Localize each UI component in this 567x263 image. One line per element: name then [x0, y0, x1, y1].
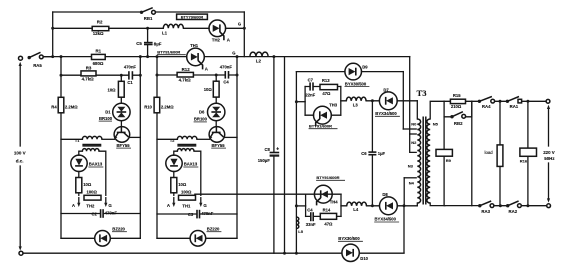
wire BFY55-2 emitter to T2: [197, 138, 210, 140]
svg-text:RA4: RA4: [482, 104, 491, 109]
wire top rail: [53, 11, 245, 13]
wire outer box right edge: [409, 57, 411, 134]
wire BAX13-2 to 10ohm-b2: [173, 172, 175, 178]
junction inner tap top: [295, 100, 298, 103]
terminal output bottom: [547, 204, 551, 208]
svg-text:C8: C8: [265, 147, 271, 152]
svg-text:C4: C4: [223, 80, 229, 85]
svg-text:470nF: 470nF: [201, 211, 214, 216]
terminal input bottom: [19, 251, 23, 255]
svg-text:C6: C6: [361, 151, 367, 156]
transformer T1 secondary coil: [82, 149, 99, 152]
svg-text:RB2: RB2: [454, 121, 463, 126]
resistor 10ohm-b stage1 body: [76, 178, 82, 193]
wire R15 line: [444, 100, 472, 102]
junction inner rail bottom: [295, 252, 298, 255]
svg-text:TH2: TH2: [212, 38, 221, 43]
svg-text:BYX34/500: BYX34/500: [375, 217, 397, 222]
svg-text:2.2MΩ: 2.2MΩ: [65, 104, 78, 109]
svg-text:D1: D1: [105, 110, 111, 115]
wire D7 corner to primary top: [416, 101, 418, 119]
wire tap N3/N4: [404, 177, 416, 179]
capacitor C1 plates: [128, 71, 130, 79]
svg-text:N0: N0: [411, 122, 417, 127]
wire BFY55 emitter to T1: [102, 138, 115, 140]
svg-text:R1: R1: [96, 48, 102, 53]
wire L3 line: [341, 100, 418, 102]
wire C3 branch: [157, 213, 237, 215]
resistor 100ohm stage1 body: [84, 195, 101, 200]
wire secondary top out: [430, 101, 444, 119]
part label BTY79/600R boxed: [177, 14, 208, 19]
diode D10: [342, 244, 359, 261]
thyristor TH3: [314, 106, 332, 124]
svg-text:d.c.: d.c.: [16, 159, 24, 164]
capacitor C4 plates output: [310, 212, 312, 221]
svg-text:R4: R4: [51, 105, 57, 110]
capacitor C8 plates: [270, 152, 280, 154]
svg-text:680Ω: 680Ω: [93, 61, 104, 66]
wire BFY55-2 collector to rail: [225, 136, 237, 138]
resistor R1 body: [92, 54, 106, 59]
supply arrow up: [19, 65, 21, 146]
wire TH4 loop left vertical: [305, 194, 307, 216]
wire R9 rail: [443, 101, 445, 205]
junction C4 right: [236, 74, 239, 77]
svg-text:BYX34/500: BYX34/500: [375, 111, 397, 116]
wire inner rail tap to TH4 loop: [296, 205, 305, 207]
svg-text:8µF: 8µF: [154, 41, 162, 46]
wire main supply line (100V bus): [43, 56, 410, 58]
svg-text:BTY91/600R: BTY91/600R: [309, 123, 332, 128]
svg-text:BAX13: BAX13: [89, 162, 103, 167]
svg-text:BZ220: BZ220: [112, 226, 125, 231]
svg-text:T2: T2: [170, 139, 174, 143]
wire left drop from top rail to main line: [52, 12, 54, 57]
svg-text:RA2: RA2: [509, 209, 518, 214]
svg-text:G: G: [232, 51, 235, 56]
svg-text:G: G: [238, 21, 241, 26]
svg-text:load: load: [485, 150, 494, 155]
svg-text:12kΩ: 12kΩ: [93, 31, 104, 36]
zener BZ220 stage1: [95, 231, 111, 247]
junction stage1 right rail top: [139, 55, 142, 58]
resistor R16 body: [520, 148, 537, 156]
resistor 100ohm stage2 body: [179, 195, 196, 200]
wire TH3 loop right vertical: [340, 87, 342, 116]
junction D8/D10 riser: [403, 204, 406, 207]
wire BZ220 branch stage1: [61, 237, 140, 239]
svg-text:C2: C2: [92, 211, 98, 216]
junction 10ohm top: [120, 74, 123, 77]
svg-text:BTY79/600R: BTY79/600R: [181, 14, 204, 19]
junction L4/C6: [371, 204, 374, 207]
wire corner drop x=244.3: [243, 12, 245, 57]
wire N4 drop: [403, 178, 405, 206]
diode D9: [345, 63, 362, 80]
resistor R13 body: [320, 84, 338, 89]
svg-text:N3: N3: [408, 163, 414, 168]
diac D1 BR100: [113, 103, 130, 120]
wire stage2 right rail: [236, 57, 238, 239]
svg-text:220 V: 220 V: [543, 150, 555, 155]
transistor BFY55 stage1: [114, 127, 130, 143]
transformer T3 core: [422, 117, 424, 205]
wire T2 primary to rail: [157, 138, 177, 140]
wire primary bottom corner: [416, 203, 418, 206]
svg-text:L3: L3: [353, 103, 359, 108]
wire BZ220 branch stage2: [157, 237, 237, 239]
wire bottom rail: [23, 252, 404, 254]
wire C7/R13 branch: [305, 86, 341, 88]
transformer T1 primary coil: [82, 136, 102, 139]
transformer T1 core: [82, 144, 101, 146]
resistor R10 body: [154, 97, 160, 113]
svg-text:BZ220: BZ220: [207, 226, 220, 231]
svg-text:BAX13: BAX13: [184, 162, 198, 167]
switch RA3: [478, 204, 481, 207]
wire TH3 row: [305, 114, 341, 116]
transformer T2 core: [177, 144, 196, 146]
svg-text:T3: T3: [417, 88, 427, 98]
junction L2/C8: [272, 55, 275, 58]
resistor load body: [497, 145, 503, 167]
wire R3/C1 line: [61, 74, 140, 76]
wire C6 vertical: [371, 101, 373, 206]
svg-text:BFY55: BFY55: [117, 143, 131, 148]
junction R16 rail bottom: [526, 204, 529, 207]
wire BFY55 collector to rail: [130, 136, 141, 138]
svg-text:1µF: 1µF: [378, 151, 386, 156]
resistor R4 body: [58, 97, 64, 113]
svg-text:N2: N2: [411, 140, 417, 145]
diode D7: [379, 92, 397, 110]
wire BAX13 to 10ohm: [78, 172, 80, 178]
junction load rail bottom: [499, 204, 502, 207]
junction C1 right: [139, 74, 142, 77]
junction top-of-C5: [146, 27, 149, 30]
wire top output line: [472, 100, 546, 102]
svg-text:470nF: 470nF: [105, 210, 118, 215]
svg-text:470nF: 470nF: [124, 64, 137, 69]
inductor L1: [163, 24, 183, 28]
resistor R9 body: [436, 149, 452, 156]
svg-text:100Ω: 100Ω: [181, 190, 192, 195]
wire N2 bracket: [410, 134, 417, 152]
capacitor C2 plates: [100, 209, 102, 218]
inductor L2: [250, 52, 268, 57]
svg-text:TH4: TH4: [330, 199, 339, 204]
wire inner ring top (D9 line): [296, 71, 403, 73]
wire C2 branch: [61, 213, 140, 215]
junction outer box bottom: [283, 252, 286, 255]
svg-text:N5: N5: [433, 122, 439, 127]
wire D9 drop to tap1: [402, 72, 404, 129]
junction main/R2 split: [51, 27, 54, 30]
wire R2/TH2 branch line: [53, 27, 245, 29]
svg-text:R10: R10: [144, 105, 152, 110]
wire T1 primary to rail: [61, 138, 82, 140]
resistor 10ohm-b stage2 body: [171, 178, 177, 193]
wire L4 line: [341, 205, 417, 207]
switch RA1: [506, 100, 509, 103]
junction TH2 line to drop: [243, 27, 246, 30]
wire R12/C4 line: [157, 74, 237, 76]
svg-text:R13: R13: [322, 78, 330, 83]
wire T2 sec left to BAX13-2: [174, 151, 178, 155]
resistor R2 body: [92, 26, 109, 30]
transistor BFY55 stage2: [209, 127, 225, 143]
wire 10ohm-b2 to junction: [173, 193, 175, 196]
wire T2 sec right to G line: [194, 151, 201, 195]
wire D1 to BFY55: [120, 121, 122, 127]
junction 10ohm2 top: [215, 74, 218, 77]
svg-text:100 V: 100 V: [14, 151, 26, 156]
wire inner rail: [295, 72, 297, 254]
thyristor TH4: [314, 185, 332, 203]
wire tap N2 top from box edge: [410, 133, 417, 135]
capacitor C3 plates: [196, 210, 198, 219]
junction L3/C6: [371, 99, 374, 102]
svg-text:33nF: 33nF: [306, 222, 316, 227]
wire C8 vertical: [273, 57, 275, 254]
wire C4/R14 branch: [306, 215, 341, 217]
terminal input top: [19, 56, 23, 60]
svg-text:TH1: TH1: [182, 203, 191, 208]
svg-text:10Ω: 10Ω: [108, 88, 117, 93]
zener BZ220 stage2: [190, 231, 206, 247]
wire 10ohm2 to D6: [215, 75, 217, 103]
svg-text:22nF: 22nF: [305, 93, 315, 98]
junction stage1 left rail top: [60, 55, 63, 58]
terminal arrow A stage2: [173, 198, 175, 204]
transformer T3 secondary winding: [427, 119, 430, 203]
wire inner rail tap to TH3 loop: [296, 101, 305, 103]
svg-text:BTY91/600R: BTY91/600R: [157, 49, 180, 54]
junction inner tap bottom: [295, 204, 298, 207]
resistor R15 body: [450, 99, 465, 103]
svg-text:G: G: [203, 203, 207, 208]
switch RA2: [506, 204, 509, 207]
svg-text:C1: C1: [127, 80, 133, 85]
svg-text:10Ω: 10Ω: [83, 182, 92, 187]
svg-text:BR100: BR100: [194, 117, 208, 122]
output volt arrow up: [548, 108, 550, 146]
svg-text:BTY91/600R: BTY91/600R: [316, 175, 339, 180]
svg-text:BYX30/500: BYX30/500: [338, 236, 360, 241]
wire RA5 to junction: [43, 56, 53, 58]
wire outer box left edge: [284, 57, 286, 254]
resistor R14 body: [320, 213, 336, 219]
svg-text:L1: L1: [162, 31, 168, 36]
terminal arrow G stage1: [105, 198, 107, 204]
switch RB2: [450, 115, 453, 118]
capacitor C7 plates: [309, 82, 311, 90]
terminal arrow A stage1: [78, 198, 80, 204]
junction R16 rail top: [526, 100, 529, 103]
wire stage2 left rail: [156, 57, 158, 239]
svg-text:BYX30/500: BYX30/500: [345, 81, 367, 86]
transformer T3 primary winding: [417, 119, 420, 203]
svg-text:D7: D7: [383, 87, 389, 92]
svg-text:47Ω: 47Ω: [322, 91, 331, 96]
junction stage2 left rail top: [156, 55, 159, 58]
junction R3 left: [60, 74, 63, 77]
switch RA5: [28, 56, 31, 59]
thyristor TH2: [209, 20, 226, 37]
resistor R3 body: [81, 71, 96, 76]
svg-text:R14: R14: [323, 208, 331, 213]
wire stage1 right rail: [139, 57, 141, 239]
svg-text:L2: L2: [256, 58, 262, 63]
wire stage1 left rail: [60, 57, 62, 239]
svg-text:10Ω: 10Ω: [204, 87, 213, 92]
terminal output top: [546, 99, 550, 103]
svg-text:10Ω: 10Ω: [178, 182, 187, 187]
inductor L3: [346, 97, 366, 101]
svg-text:4.7kΩ: 4.7kΩ: [179, 78, 192, 83]
switch RA4: [478, 100, 481, 103]
svg-text:D9: D9: [362, 64, 368, 69]
terminal arrow G stage2: [200, 198, 202, 204]
wire TH3 loop left vertical: [304, 87, 306, 116]
capacitor C4 stage2 plates: [224, 71, 226, 79]
transformer T2 secondary coil: [177, 149, 194, 152]
svg-text:210Ω: 210Ω: [451, 104, 462, 109]
svg-text:D6: D6: [199, 110, 205, 115]
svg-text:TH3: TH3: [329, 103, 338, 108]
transformer T2 primary coil: [177, 136, 197, 139]
svg-text:G: G: [108, 203, 112, 208]
wire 10ohm to D1: [120, 75, 122, 103]
svg-text:BR100: BR100: [99, 116, 113, 121]
svg-text:D10: D10: [360, 256, 368, 261]
diode BAX13 stage1: [71, 155, 87, 171]
wire T1 sec right to G line: [99, 151, 106, 195]
svg-text:L4: L4: [353, 207, 359, 212]
wire capacitor C5 vertical: [147, 28, 149, 56]
svg-text:R2: R2: [97, 20, 103, 25]
svg-text:C5: C5: [136, 41, 142, 46]
svg-text:C4: C4: [307, 207, 313, 212]
capacitor C5 plates: [144, 42, 153, 44]
junction stage2 right rail top: [236, 55, 239, 58]
svg-text:100Ω: 100Ω: [87, 190, 98, 195]
svg-text:D8: D8: [382, 192, 388, 197]
thyristor TH1: [187, 48, 205, 66]
wire T1 sec left to BAX13: [79, 151, 83, 155]
svg-text:RA1: RA1: [510, 104, 519, 109]
svg-text:+: +: [276, 146, 279, 152]
wire RB2 branch: [444, 101, 472, 117]
svg-text:150µF: 150µF: [258, 158, 270, 163]
svg-text:470nF: 470nF: [220, 64, 233, 69]
resistor 10ohm stage1 body: [118, 81, 124, 97]
diac D6 BR100: [208, 103, 225, 120]
junction C5 bottom: [146, 55, 149, 58]
wire R16 rail: [527, 101, 529, 205]
inductor L5: [296, 217, 298, 228]
wire TH4 row: [194, 193, 341, 195]
switch RB1: [140, 11, 143, 14]
wire tap N0/N2 from D9 line: [403, 128, 416, 130]
wire D6 to BFY55-2: [215, 121, 217, 127]
svg-text:50Hz: 50Hz: [544, 156, 555, 161]
svg-text:R15: R15: [453, 93, 461, 98]
svg-text:L5: L5: [298, 229, 303, 234]
svg-text:R3: R3: [86, 66, 92, 71]
svg-text:2.2MΩ: 2.2MΩ: [161, 104, 174, 109]
output volt arrow down: [548, 163, 550, 199]
svg-text:R12: R12: [182, 67, 191, 72]
svg-text:R9: R9: [446, 158, 452, 163]
svg-text:N4: N4: [409, 181, 415, 186]
capacitor C6 plates: [368, 151, 376, 153]
wire load rail: [499, 101, 501, 205]
wire 10ohm-b to junction: [78, 193, 80, 196]
diode D8: [380, 197, 398, 215]
supply arrow down: [19, 166, 21, 247]
svg-text:RA5: RA5: [33, 63, 42, 68]
svg-text:RB1: RB1: [144, 16, 153, 21]
wire left output loop vertical: [471, 101, 473, 205]
wire secondary bottom out: [430, 203, 445, 206]
wire D10 riser: [403, 206, 405, 253]
svg-text:BFY55: BFY55: [212, 143, 226, 148]
junction load rail top: [499, 100, 502, 103]
diode BAX13 stage2: [166, 155, 182, 171]
junction R12 left: [156, 74, 159, 77]
svg-text:R16: R16: [520, 159, 528, 164]
wire bottom output line: [445, 205, 547, 207]
svg-text:RA3: RA3: [481, 209, 490, 214]
svg-text:C3: C3: [188, 212, 194, 217]
svg-text:47Ω: 47Ω: [324, 222, 333, 227]
svg-text:TH2: TH2: [86, 203, 95, 208]
svg-text:T1: T1: [75, 139, 79, 143]
resistor R12 body: [177, 72, 193, 77]
wire TH4 loop right vertical: [340, 194, 342, 216]
svg-text:TH1: TH1: [190, 43, 199, 48]
svg-text:C7: C7: [308, 77, 314, 82]
inductor L4: [347, 202, 367, 206]
junction top-rail drop on main line: [51, 55, 54, 58]
svg-text:4.7kΩ: 4.7kΩ: [82, 76, 95, 81]
resistor 10ohm stage2 body: [213, 81, 219, 97]
